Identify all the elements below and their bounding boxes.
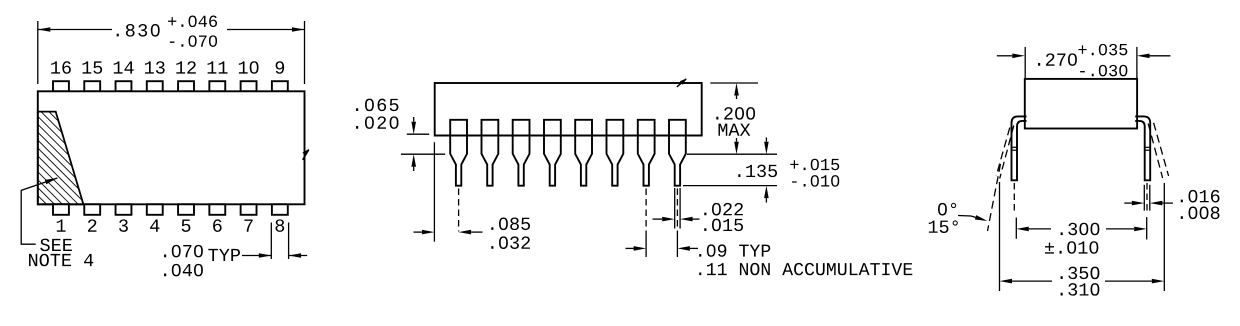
pin 2 (side view) (482, 120, 499, 186)
pin 1 (side view) (450, 120, 467, 186)
dimension text .085 (491, 218, 530, 231)
pin number 3 label (top view) (119, 219, 128, 232)
pin 8 width extension line left (674, 188, 676, 229)
seating plane line right segment (687, 153, 777, 155)
dimension .070/.040 extension line right (288, 223, 290, 260)
pin number 11 label (top view) (208, 61, 228, 73)
IC body (top view) (38, 91, 305, 204)
dimension .350 left arrow (1000, 279, 1053, 284)
IC body (end view) (1025, 79, 1137, 129)
pin number 6 label (top view) (213, 219, 222, 232)
dimension text +-.010 (1045, 241, 1098, 254)
dimension text .11 NON ACCUMULATIVE (699, 263, 912, 275)
dimension text .135 (738, 165, 777, 178)
IC body (side view) (435, 83, 702, 136)
dimension .270 extension line right (1136, 47, 1138, 78)
pin 2 (bottom row, top view) (84, 204, 100, 215)
tolerance text +.046 (168, 16, 217, 28)
angle leader arrow (958, 215, 988, 221)
dimension .830 +.046/-.070 extension line right (304, 21, 306, 84)
dimension .270 right arrow (1137, 54, 1170, 59)
dimension .350 extension line left (999, 182, 1001, 291)
pin number 4 label (top view) (150, 220, 159, 232)
dimension .200 MAX up arrow (734, 83, 739, 99)
body top extension line right (710, 82, 758, 84)
dimension text .09 TYP (699, 244, 770, 256)
left lead centerline (dashed) (1013, 183, 1015, 215)
pin 5 (bottom row, top view) (178, 204, 194, 215)
dimension .300 left arrow (1016, 227, 1051, 232)
right lead centerline (dashed) (1146, 183, 1148, 215)
left lead 15-degree splay (dashed) (988, 126, 1014, 232)
right lead step tick marks (1145, 147, 1151, 150)
pin 16 (top row, top view) (53, 81, 69, 91)
dimension text MAX (719, 124, 751, 136)
dimension .830 line left segment with arrow (38, 27, 112, 32)
dimension text .020 (356, 116, 398, 129)
dimension .065/.020 top tick (407, 133, 429, 135)
angle text 15 deg (929, 220, 958, 233)
pin 7 centerline (dashed+solid) (645, 189, 647, 258)
pin 4 (side view) (544, 120, 561, 186)
pin 1 (bottom row, top view) (53, 204, 69, 215)
dimension text .310 (1061, 283, 1100, 296)
pin 15 (top row, top view) (84, 81, 100, 91)
left lead (end view) (1012, 116, 1027, 180)
dimension .09 right arrow (677, 246, 698, 251)
pin 4 (bottom row, top view) (147, 204, 163, 215)
angle text 0 deg (938, 203, 956, 216)
pin 6 (side view) (607, 120, 624, 186)
right lead width extension line left (1143, 185, 1145, 211)
tolerance text -.030 (1080, 65, 1127, 77)
leader arrow to pin-1 index mark (21, 178, 57, 244)
dimension .350 right arrow (1105, 279, 1164, 284)
pin number 12 label (top view) (176, 61, 196, 73)
pin number 5 label (top view) (182, 220, 191, 232)
tolerance text -.010 (792, 175, 839, 187)
dimension .022/.015 right arrow (680, 217, 699, 222)
note text SEE (40, 239, 72, 252)
pin number 1 label (top view) (57, 220, 66, 232)
dimension text .200 (716, 107, 755, 120)
dimension .016/.008 left arrow (1124, 201, 1144, 206)
dimension text .830 (117, 24, 160, 37)
tolerance text -.070 (170, 35, 217, 47)
pin 8 centerline (dashed+solid) (676, 189, 678, 258)
dimension .270 left arrow (997, 54, 1025, 59)
pin 6 (bottom row, top view) (209, 204, 225, 215)
dimension .270 extension line left (1024, 47, 1026, 78)
pin 14 (top row, top view) (116, 81, 132, 91)
pin 13 (top row, top view) (147, 81, 163, 91)
dimension .070/.040 extension line left (270, 223, 272, 260)
dimension .135 top arrow (764, 138, 769, 155)
dimension .085/.032 extension line (body edge) (433, 142, 435, 242)
pin number 10 label (top view) (239, 61, 259, 74)
pin 8 (side view) (669, 120, 686, 186)
dimension .300 right arrow (1106, 227, 1147, 232)
dimension text .008 (1181, 207, 1220, 220)
tolerance text +.015 (790, 159, 839, 171)
dimension .830 +.046/-.070 extension line left (37, 21, 39, 84)
dimension text .300 (1061, 223, 1100, 236)
pin 1 index hatched area (38, 112, 84, 205)
pin 3 (bottom row, top view) (116, 204, 132, 215)
pin number 9 label (top view) (276, 61, 285, 74)
pin 7 (side view) (638, 120, 655, 186)
right lead 15-degree splay (dashed) (1148, 123, 1168, 178)
body bottom edge over pins (side view) (435, 135, 702, 137)
dimension text TYP with leader arrow (208, 249, 271, 261)
break mark on body top edge (side view) (677, 78, 687, 86)
right lead width extension line right (1149, 185, 1151, 211)
dimension text .016 (1181, 190, 1220, 203)
dimension text .065 (356, 99, 398, 112)
pin 1 centerline (dashed) (458, 189, 460, 232)
dimension text .040 (164, 264, 203, 277)
dimension .200 MAX down arrow (734, 138, 739, 154)
dimension text .270 (1038, 53, 1077, 66)
dimension .070/.040 right arrow (289, 253, 308, 258)
dimension text .015 (704, 219, 743, 232)
pin number 15 label (top view) (82, 61, 102, 73)
dimension .085/.032 right arrow (459, 230, 483, 235)
pin number 8 label (top view) (275, 219, 284, 232)
pin number 7 label (top view) (244, 220, 252, 232)
dimension text .070 (164, 245, 203, 258)
pin 8 (bottom row, top view) (272, 204, 288, 215)
dimension .065/.020 down arrow (411, 117, 416, 134)
dimension .300 terminator right (1146, 217, 1148, 239)
dimension .300 terminator left (1015, 218, 1017, 239)
break mark on body right edge (top view) (302, 149, 309, 160)
dimension .830 line right segment with arrow (227, 27, 305, 32)
pin 7 (bottom row, top view) (241, 204, 257, 215)
tolerance text +.035 (1078, 44, 1127, 56)
pin number 16 label (top view) (51, 61, 71, 74)
dimension .135 bottom arrow (764, 186, 769, 203)
pin tip reference line right (683, 185, 777, 187)
pin 3 (side view) (513, 120, 530, 186)
pin 9 (top row, top view) (272, 81, 288, 91)
dimension .085/.032 left arrow (414, 230, 435, 235)
dimension text .350 (1061, 267, 1100, 280)
seating plane line left segment (401, 153, 445, 155)
dimension .350 extension line right (1163, 183, 1165, 291)
pin number 2 label (top view) (88, 219, 96, 231)
pin number 14 label (top view) (114, 61, 134, 73)
dimension text .032 (491, 236, 530, 249)
left lead step tick marks (1012, 147, 1018, 150)
note text NOTE 4 (29, 254, 93, 267)
dimension .065/.020 up arrow (411, 154, 416, 171)
pin 10 (top row, top view) (241, 81, 257, 91)
pin 5 (side view) (575, 120, 592, 186)
dimension .09 left arrow (626, 246, 647, 251)
dimension text .022 (704, 203, 743, 216)
dimension .016/.008 right arrow (1150, 201, 1173, 206)
pin 11 (top row, top view) (209, 81, 225, 91)
pin 8 width extension line right (679, 188, 681, 229)
right lead (end view) (1135, 116, 1150, 180)
pin 12 (top row, top view) (178, 81, 194, 91)
dimension .022/.015 left arrow (653, 217, 675, 222)
pin number 13 label (top view) (145, 61, 165, 74)
